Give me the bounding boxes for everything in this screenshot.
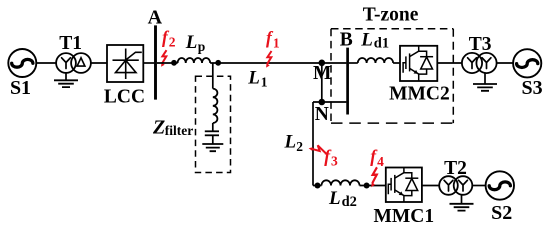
wire Ld1 to MMC2 [393, 62, 400, 64]
ground of T2 [461, 195, 463, 204]
svg-text:L: L [328, 188, 341, 209]
converter MMC1 box [386, 168, 422, 203]
transformer T3 [462, 53, 497, 73]
wire M down to N [321, 63, 323, 102]
wire coil to capacitor [212, 123, 214, 131]
inductor Ld1 [358, 58, 393, 63]
fault f4 bolt [371, 167, 377, 187]
transformer T2 [439, 176, 472, 195]
svg-text:p: p [198, 39, 206, 54]
junction dot right of Ld2 [364, 183, 370, 189]
wire T1 to LCC [91, 62, 107, 64]
AC source S2 [486, 171, 514, 199]
svg-text:T2: T2 [444, 158, 467, 179]
fault f2 bolt [161, 50, 166, 67]
wire S1 to T1 [36, 62, 56, 64]
wire Ld2 to MMC1 [360, 185, 386, 187]
MMC1 IGBT symbol [388, 168, 418, 203]
svg-text:d1: d1 [374, 36, 389, 52]
ground of T3 [484, 73, 486, 84]
svg-text:4: 4 [377, 154, 384, 169]
svg-text:S3: S3 [522, 77, 543, 99]
fault f1 bolt [266, 51, 271, 68]
transformer T1 [56, 53, 91, 73]
bus B [346, 48, 349, 115]
wire MMC1 to T2 [422, 185, 439, 187]
fault f3 bolt [309, 145, 327, 154]
filter inductor coil [213, 89, 218, 123]
wire Lp to M (line L1) [210, 62, 322, 64]
wire MMC2 to T3 [437, 62, 462, 64]
svg-text:d2: d2 [342, 194, 357, 210]
MMC2 IGBT symbol [403, 46, 433, 81]
svg-text:MMC2: MMC2 [389, 84, 450, 105]
svg-text:Z: Z [152, 116, 165, 138]
inductor Ld2 [322, 180, 360, 185]
wire M to bus B [322, 62, 347, 64]
wire LCC to bus A [143, 62, 154, 64]
filter tap wire down [212, 63, 214, 89]
svg-text:S1: S1 [10, 77, 31, 99]
svg-text:1: 1 [273, 35, 280, 50]
junction dot left of Ld2 [315, 183, 321, 189]
wire T2 to S2 [472, 185, 485, 187]
svg-text:T-zone: T-zone [363, 5, 419, 26]
filter ground [202, 144, 223, 151]
delta winding of T1 [77, 58, 85, 66]
wire bus B to Ld1 [349, 62, 358, 64]
svg-text:T1: T1 [59, 33, 82, 54]
svg-text:S2: S2 [491, 202, 512, 224]
branch wire to Ld2 [313, 185, 322, 187]
svg-text:2: 2 [296, 139, 303, 154]
svg-text:L: L [247, 67, 260, 88]
converter MMC2 box [400, 46, 437, 81]
svg-text:MMC1: MMC1 [373, 206, 434, 227]
ground of T1 [65, 73, 67, 80]
bus A [154, 25, 157, 99]
junction dot left of Lp [171, 60, 177, 66]
wire T3 to S3 [497, 62, 513, 64]
svg-text:A: A [148, 7, 163, 29]
node M dot [319, 60, 326, 67]
node N dot [319, 99, 326, 106]
svg-text:L: L [185, 32, 198, 53]
svg-text:B: B [340, 29, 353, 50]
inductor Lp [178, 58, 211, 63]
LCC converter box [107, 45, 143, 82]
AC source S3 [513, 49, 541, 77]
wire bus A to node [157, 62, 178, 64]
svg-text:N: N [315, 104, 329, 125]
svg-text:LCC: LCC [104, 86, 145, 107]
wire N down to branch (line L2) [312, 102, 314, 186]
Z filter dashed box [196, 76, 231, 172]
wire capacitor to ground [212, 135, 214, 144]
svg-text:T3: T3 [469, 34, 492, 55]
svg-text:filter: filter [165, 123, 193, 138]
svg-text:2: 2 [169, 34, 176, 49]
svg-text:1: 1 [261, 74, 268, 89]
AC source S1 [8, 49, 36, 77]
svg-text:L: L [360, 29, 373, 50]
filter capacitor [205, 131, 219, 135]
wire N to bus B [313, 101, 346, 103]
svg-text:3: 3 [331, 153, 338, 168]
thyristor symbol [113, 49, 142, 80]
svg-text:L: L [284, 132, 297, 153]
junction dot right of Lp [215, 60, 221, 66]
T-zone dashed box [331, 29, 453, 123]
